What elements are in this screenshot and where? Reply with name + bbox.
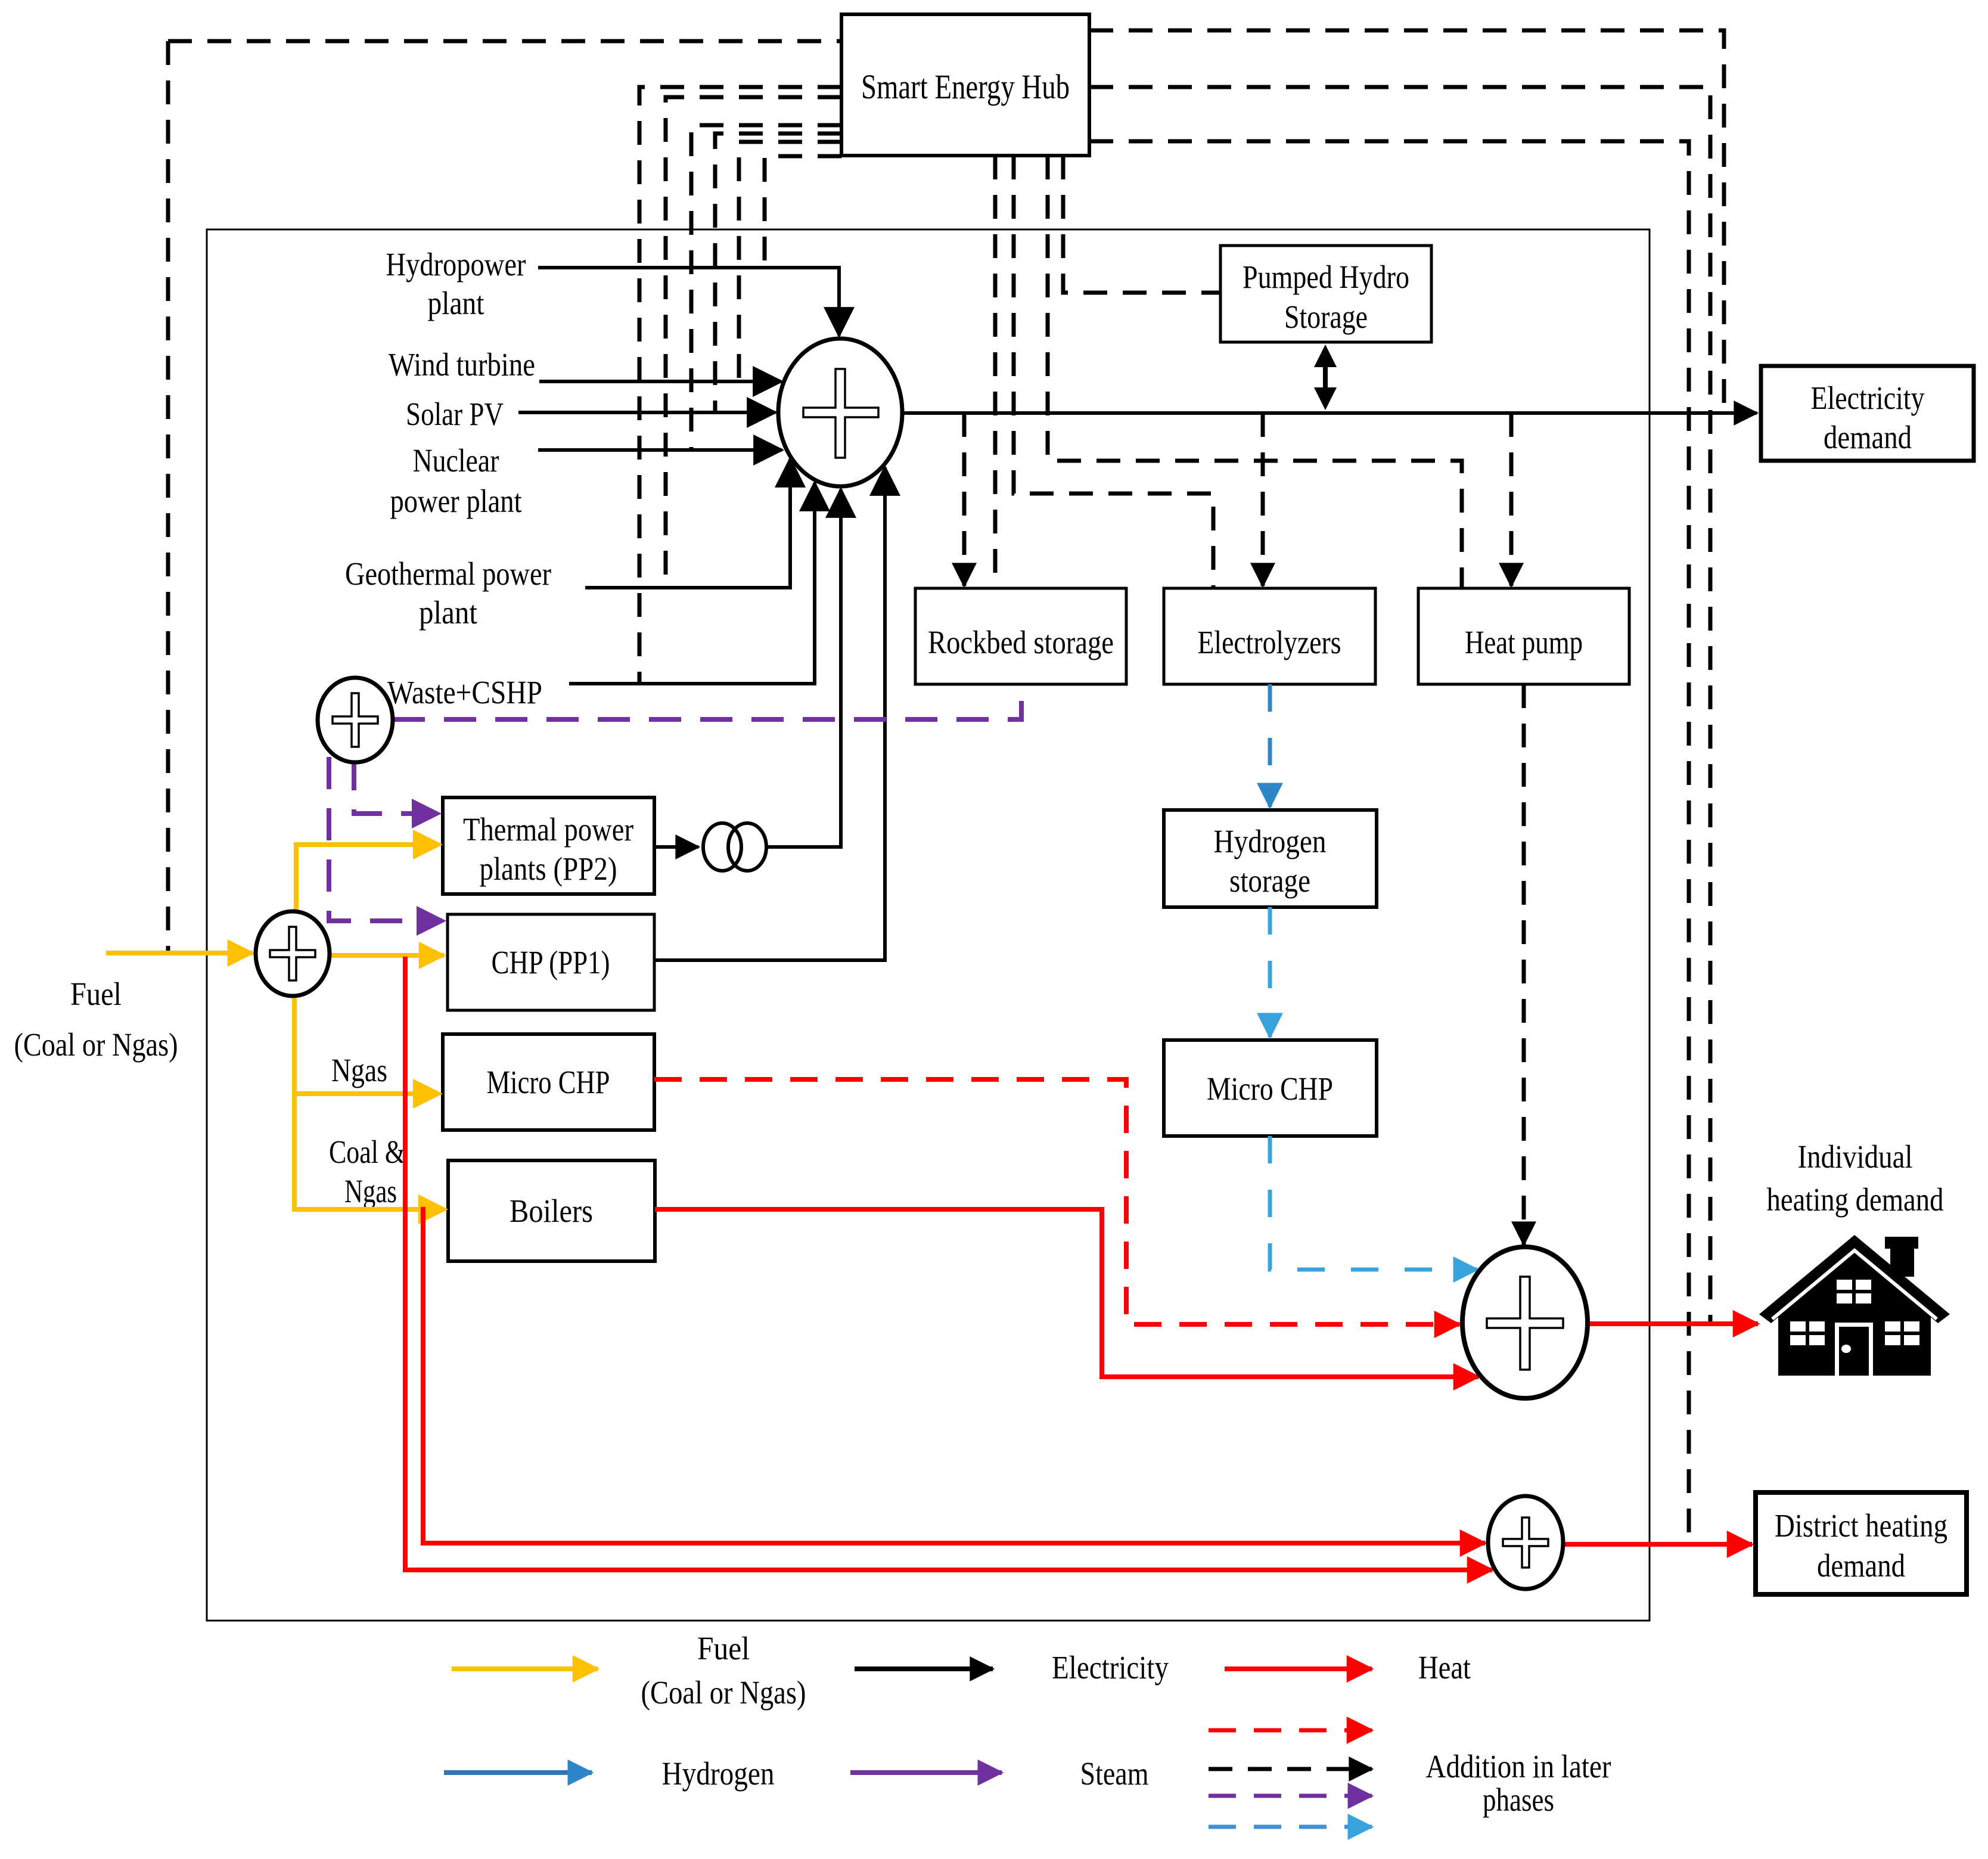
svg-text:Micro CHP: Micro CHP [1207, 1070, 1333, 1107]
svg-text:Nuclear: Nuclear [413, 442, 499, 479]
legend dashed red arrow [1209, 1728, 1372, 1733]
svg-text:Rockbed storage: Rockbed storage [928, 624, 1114, 660]
wire Boilers heat to individual node arrow [655, 1209, 1478, 1377]
svg-text:Pumped Hydro: Pumped Hydro [1242, 259, 1409, 295]
node Waste+CSHP summation [318, 678, 393, 762]
label Nuclear power plant [390, 442, 522, 519]
node individual heating summation [1462, 1247, 1588, 1398]
svg-text:demand: demand [1817, 1547, 1905, 1584]
legend dashed purple arrow [1209, 1794, 1372, 1798]
svg-text:Steam: Steam [1080, 1755, 1149, 1792]
wire dashed hub-left 1 to Waste line [639, 87, 841, 684]
transformer symbol [703, 823, 766, 871]
wire electricity node to Electricity demand arrow [902, 411, 1757, 415]
box Micro CHP (hydrogen) [1164, 1040, 1377, 1136]
svg-text:Heat: Heat [1418, 1649, 1471, 1686]
wire dashed Heat pump to individual heating node arrow [1522, 684, 1526, 1244]
wire dashed hub-left 3 to Nuclear line [691, 125, 841, 450]
node fuel summation [256, 911, 330, 996]
label Geothermal power plant [345, 555, 551, 631]
box Boilers [448, 1160, 655, 1261]
wire CHP (PP1) electricity to node arrow [654, 467, 885, 960]
svg-text:(Coal or Ngas): (Coal or Ngas) [14, 1026, 178, 1063]
label Individual heating demand [1767, 1138, 1944, 1218]
legend heat arrow [1225, 1666, 1372, 1671]
box Rockbed storage [915, 588, 1126, 684]
box Electrolyzers [1164, 588, 1375, 684]
wire dashed hub-right 3 to district heating line [1089, 141, 1689, 1543]
svg-text:Geothermal power: Geothermal power [345, 555, 551, 592]
svg-text:Electrolyzers: Electrolyzers [1198, 624, 1341, 660]
wire Waste+CSHP to node arrow [569, 483, 815, 684]
svg-text:Storage: Storage [1284, 299, 1368, 335]
wire dashed electricity line to Electrolyzers arrow [1261, 413, 1265, 586]
svg-text:Hydrogen: Hydrogen [1214, 823, 1327, 859]
wire CHP heat down to district node arrow (lower) [405, 957, 1492, 1570]
wire fuel input to fuel node arrow [106, 951, 253, 955]
house icon (individual heating demand) [1759, 1235, 1950, 1376]
svg-text:Wind turbine: Wind turbine [389, 346, 535, 383]
wire steam node to Rockbed storage (dashed purple) [393, 684, 1021, 719]
wire Hydrogen storage to Micro CHP arrow (dashed blue) [1268, 907, 1272, 1037]
legend steam arrow [850, 1770, 1002, 1775]
svg-text:Solar PV: Solar PV [406, 396, 504, 432]
legend fuel arrow [452, 1666, 598, 1671]
wire dashed hub-left 6 to Hydropower line [765, 156, 841, 268]
svg-text:Coal &: Coal & [329, 1134, 405, 1170]
box CHP (PP1) [448, 914, 654, 1010]
svg-text:Thermal power: Thermal power [463, 811, 633, 848]
wire dashed hub-left 5 to Wind line [739, 142, 841, 381]
svg-text:Fuel: Fuel [70, 976, 122, 1012]
box Smart Energy Hub [841, 14, 1089, 156]
wire Pumped Hydro Storage double arrow [1323, 356, 1328, 397]
legend label Addition in later phases [1426, 1748, 1611, 1818]
wire fuel node to CHP (PP1) arrow [330, 953, 444, 958]
label Fuel (Coal or Ngas) [14, 976, 178, 1063]
svg-text:Electricity: Electricity [1052, 1649, 1169, 1686]
box Pumped Hydro Storage [1220, 246, 1431, 342]
svg-text:Heat pump: Heat pump [1465, 624, 1583, 660]
node district heating summation [1488, 1496, 1563, 1589]
wire Nuclear power plant to node arrow [538, 448, 782, 452]
box Micro CHP (fuel) [443, 1034, 654, 1130]
wire dashed hub-left 4 to Solar line [715, 134, 841, 412]
label Coal & Ngas [329, 1134, 405, 1209]
svg-text:demand: demand [1824, 419, 1912, 455]
wire individual node to house arrow [1588, 1321, 1758, 1326]
svg-text:Fuel: Fuel [697, 1630, 750, 1666]
box Hydrogen storage [1164, 810, 1377, 907]
system boundary [207, 229, 1650, 1621]
svg-text:Addition in later: Addition in later [1426, 1748, 1611, 1784]
legend electricity arrow [855, 1666, 993, 1671]
legend dashed black arrow [1209, 1767, 1372, 1771]
legend label Fuel (Coal or Ngas) [641, 1630, 806, 1711]
wire Solar PV to node arrow [518, 411, 775, 414]
box Electricity demand [1761, 366, 1974, 461]
legend hydrogen arrow [444, 1770, 592, 1775]
wire steam node to Thermal PP2 arrow (dashed purple) [354, 758, 421, 814]
wire district node to District heating demand arrow [1563, 1542, 1752, 1547]
wire fuel node to Thermal PP2 arrow [296, 845, 432, 911]
wire dashed hub-left 2 to Geothermal line [666, 97, 841, 588]
wire Wind turbine to node arrow [539, 380, 781, 383]
svg-text:plant: plant [419, 594, 477, 631]
svg-text:Ngas: Ngas [344, 1173, 397, 1209]
wire Micro CHP heat dashed to individual node arrow [654, 1079, 1459, 1324]
svg-text:District heating: District heating [1775, 1507, 1947, 1544]
svg-text:Ngas: Ngas [331, 1052, 387, 1088]
svg-text:Smart Energy Hub: Smart Energy Hub [861, 67, 1070, 106]
svg-text:(Coal or Ngas): (Coal or Ngas) [641, 1674, 806, 1711]
box Heat pump [1418, 588, 1629, 684]
svg-text:Hydropower: Hydropower [386, 246, 526, 283]
wire dashed outer top-left horizontal [168, 39, 841, 44]
wire transformer to node arrow [766, 489, 841, 847]
svg-text:storage: storage [1229, 862, 1310, 899]
wire dashed hub-bottom to Rockbed storage [993, 156, 998, 588]
wire dashed hub-bottom to Electrolyzers [1014, 156, 1213, 588]
svg-text:Waste+CSHP: Waste+CSHP [387, 674, 542, 710]
wire dashed hub-right 2 to individual heating line [1089, 87, 1710, 1321]
svg-text:Boilers: Boilers [510, 1193, 593, 1229]
wire Electrolyzers to Hydrogen storage arrow (dashed blue) [1268, 684, 1272, 807]
wire Boilers heat down to district node arrow (upper) [423, 1207, 1485, 1543]
label Hydropower plant [386, 246, 526, 321]
wire dashed electricity line to Heat pump arrow [1509, 413, 1514, 586]
wire dashed hub-bottom to Pumped Hydro Storage [1063, 156, 1220, 293]
box District heating demand [1756, 1492, 1967, 1594]
wire fuel node down Coal & Ngas to Boilers arrow [294, 1094, 437, 1209]
svg-text:power plant: power plant [390, 483, 522, 519]
box Thermal power plants (PP2) [443, 797, 654, 894]
legend dashed blue arrow [1209, 1825, 1372, 1829]
wire steam node to CHP (PP1) arrow (dashed purple) [329, 757, 426, 921]
svg-text:Individual: Individual [1798, 1138, 1913, 1175]
wire Geothermal power plant to node arrow [585, 459, 790, 588]
wire dashed hub-bottom to Heat pump [1048, 156, 1462, 588]
wire dashed hub-right 1 to electricity demand line [1089, 30, 1724, 413]
wire Hydropower plant to node arrow [538, 268, 839, 336]
svg-text:plants (PP2): plants (PP2) [480, 851, 617, 887]
svg-text:Hydrogen: Hydrogen [662, 1755, 775, 1792]
svg-text:Micro CHP: Micro CHP [487, 1064, 610, 1100]
wire Thermal PP2 to transformer arrow [654, 845, 698, 849]
svg-text:Electricity: Electricity [1811, 380, 1925, 416]
wire fuel node down Ngas to Micro CHP arrow [294, 996, 432, 1094]
wire dashed outer left vertical to fuel line [166, 41, 170, 953]
svg-text:CHP (PP1): CHP (PP1) [492, 944, 610, 980]
svg-text:heating demand: heating demand [1767, 1181, 1944, 1218]
node electricity summation [778, 339, 902, 486]
svg-text:plant: plant [428, 285, 484, 321]
wire dashed electricity line to Rockbed storage arrow [962, 413, 967, 586]
svg-text:phases: phases [1483, 1782, 1554, 1818]
wire Micro CHP hydrogen to individual node arrow (dashed blue) [1270, 1136, 1477, 1270]
